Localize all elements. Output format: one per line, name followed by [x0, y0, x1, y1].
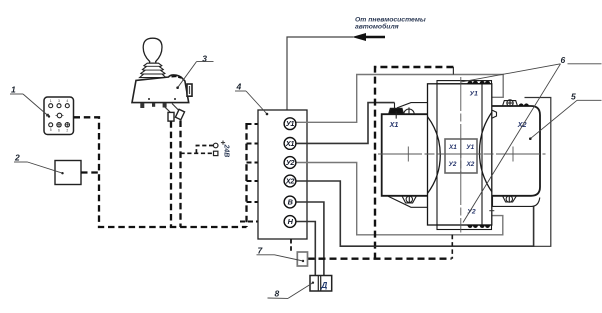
- svg-text:У2: У2: [286, 158, 295, 167]
- svg-text:У1: У1: [470, 91, 479, 98]
- svg-text:В: В: [288, 198, 293, 207]
- svg-text:4: 4: [66, 99, 68, 103]
- svg-text:8: 8: [275, 289, 280, 299]
- svg-text:У1: У1: [286, 119, 295, 128]
- svg-text:3: 3: [58, 99, 60, 103]
- svg-text:У1: У1: [466, 144, 474, 151]
- svg-text:Х1: Х1: [285, 139, 294, 148]
- svg-text:У2: У2: [449, 161, 457, 168]
- svg-text:24В: 24В: [223, 144, 230, 158]
- svg-text:5: 5: [50, 128, 52, 132]
- svg-text:Х2: Х2: [285, 177, 294, 186]
- svg-text:6: 6: [561, 55, 566, 65]
- svg-text:автомобиля: автомобиля: [355, 23, 399, 31]
- svg-text:6: 6: [58, 129, 60, 133]
- svg-text:Х1: Х1: [389, 120, 399, 129]
- svg-text:4: 4: [236, 82, 242, 92]
- svg-text:5: 5: [571, 91, 576, 101]
- svg-text:Х1: Х1: [448, 144, 457, 151]
- svg-text:У2: У2: [467, 209, 476, 216]
- svg-text:1: 1: [11, 85, 16, 95]
- svg-text:Х2: Х2: [465, 161, 474, 168]
- svg-text:2: 2: [66, 129, 68, 133]
- svg-text:2: 2: [14, 153, 20, 163]
- svg-text:1: 1: [50, 99, 52, 103]
- svg-text:От пневмосистемы: От пневмосистемы: [355, 17, 426, 24]
- svg-text:Д: Д: [320, 280, 327, 290]
